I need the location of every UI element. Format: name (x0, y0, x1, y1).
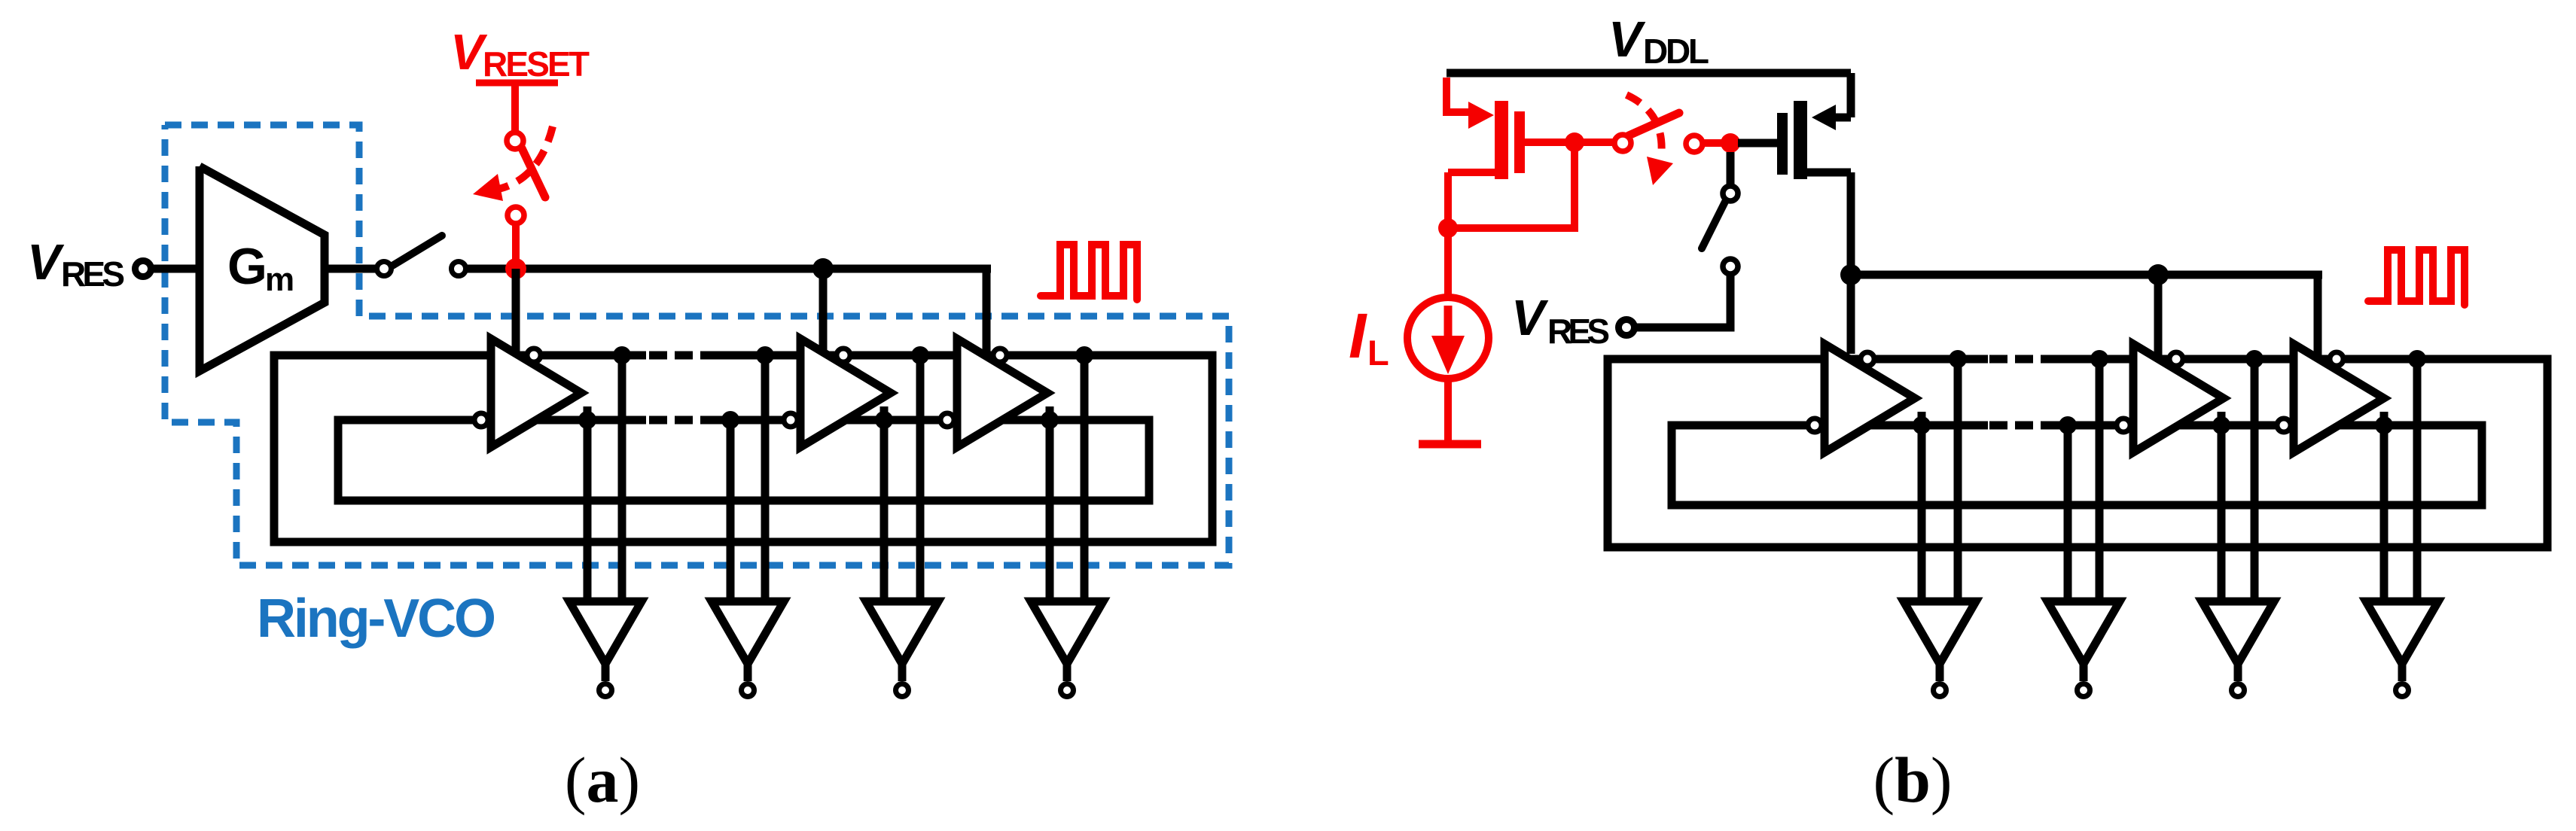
wire control to cell 2 (819, 269, 828, 356)
svg-text:I: I (1349, 300, 1367, 371)
switch S1 pole (377, 262, 392, 276)
svg-text:Ring-VCO: Ring-VCO (257, 589, 496, 649)
wire IL to ground (1444, 379, 1452, 442)
label VRES (27, 234, 125, 294)
wire cell output pair to buffer 2 (b) (2068, 359, 2099, 606)
wire cell output pair to buffer 3 (b) (2221, 359, 2254, 606)
junction lower rail tap 2 (a) (721, 411, 739, 429)
ground symbol (1419, 440, 1481, 449)
switch S3 left contact (1614, 135, 1631, 151)
label VDDL (1608, 11, 1709, 71)
junction upper rail tap 2 (a) (756, 346, 774, 364)
junction lower rail tap 4 (b) (2375, 416, 2393, 434)
transistor M1 PMOS source arrow (1468, 102, 1494, 129)
Ring-VCO dashed boundary box (165, 125, 1229, 565)
switch S2 bottom contact (508, 207, 524, 224)
wire inner feedback loop (a) (338, 420, 1149, 501)
junction lower rail tap 4 (a) (1041, 411, 1059, 429)
op-amp Gm transconductor (200, 166, 325, 371)
svg-text:(b): (b) (1873, 744, 1952, 816)
buffer 2 output stage (a) (712, 601, 784, 681)
wire cell output pair to buffer 3 (a) (884, 355, 920, 606)
junction lower rail tap 1 (a) (578, 411, 596, 429)
junction lower rail tap 3 (b) (2212, 416, 2230, 434)
wire Gm output (325, 265, 376, 273)
wire cell output pair to buffer 2 (a) (730, 355, 765, 606)
pin buffer 4 output terminal (a) (1061, 684, 1074, 697)
switch S2 blade (522, 148, 545, 197)
junction M1 drain node (1438, 218, 1458, 238)
wire control rail corner down to cell 3 (b) (2314, 271, 2322, 357)
wire lower rail dashed segment (b) (1989, 422, 2053, 430)
transistor M1 PMOS gate bar (1514, 111, 1525, 173)
buffer 1 output stage (a) (569, 601, 642, 681)
node VRES input terminal (136, 261, 151, 277)
pin inverting input bubble cell 3 (a) (940, 413, 954, 427)
transistor M2 PMOS channel bar (1794, 101, 1807, 179)
svg-text:V: V (1511, 290, 1549, 346)
switch S1 throw (452, 262, 466, 276)
svg-text:(a): (a) (565, 744, 640, 816)
junction lower rail tap 1 (b) (1913, 416, 1931, 434)
pin inverting input bubble cell 1 (a) (474, 413, 488, 427)
waveform clock output symbol (b) (2368, 250, 2465, 305)
pin buffer 2 output terminal (a) (742, 684, 755, 697)
svg-text:V: V (27, 234, 65, 291)
svg-text:L: L (1367, 333, 1389, 373)
inverter delay cell 3 (b) (2294, 344, 2384, 452)
pin inverting input bubble cell 1 (b) (1808, 419, 1821, 432)
switch S2 top contact (507, 132, 523, 149)
wire cell output pair to buffer 1 (a) (587, 355, 622, 606)
junction upper rail tap 2 (b) (2090, 350, 2108, 368)
wire switch S2 to node A (512, 224, 520, 269)
inverter delay cell 1 (b) (1825, 344, 1915, 452)
pin buffer 3 output terminal (a) (896, 684, 909, 697)
wire M2 source to VDDL (1833, 73, 1851, 117)
wire control to cell 1 (512, 269, 520, 354)
junction node B (red) (1721, 133, 1740, 153)
pin buffer 1 output terminal (a) (599, 684, 612, 697)
junction upper rail tap 4 (a) (1075, 346, 1093, 364)
junction control cell 2 (b) (2148, 264, 2169, 285)
junction lower rail tap 3 (a) (875, 411, 893, 429)
wire M1 gate to switch (1525, 138, 1614, 146)
label IL (1349, 300, 1389, 373)
transistor M1 PMOS channel bar (1495, 101, 1508, 179)
node VRES terminal (b) (1619, 320, 1635, 336)
junction upper rail tap 1 (b) (1949, 350, 1967, 368)
pin buffer 4 output terminal (b) (2396, 684, 2409, 697)
wire cell output pair to buffer 4 (a) (1050, 355, 1084, 606)
svg-text:V: V (1608, 11, 1646, 68)
buffer 1 output stage (b) (1904, 601, 1976, 681)
junction upper rail tap 1 (a) (613, 346, 631, 364)
pin buffer 2 output terminal (b) (2078, 684, 2090, 697)
wire cell output pair to buffer 1 (b) (1922, 359, 1958, 606)
pin inverting input bubble cell 2 (b) (2117, 419, 2130, 432)
switch S2 actuation arc (473, 126, 553, 201)
inverter delay cell 3 (a) (957, 339, 1047, 447)
power VRESET supply bar (476, 80, 558, 87)
svg-text:RESET: RESET (483, 44, 590, 84)
junction M1 gate node (1565, 132, 1584, 152)
pin inverted output bubble cell 3 (a) (993, 349, 1007, 362)
wire lower rail dashed segment (a) (649, 416, 715, 425)
wire inner feedback loop (b) (1672, 425, 2482, 505)
label VRES (b) (1511, 290, 1610, 351)
buffer 4 output stage (a) (1031, 601, 1103, 681)
transistor M2 PMOS gate bar (1777, 113, 1788, 175)
buffer 3 output stage (a) (866, 601, 938, 681)
buffer 3 output stage (b) (2202, 601, 2274, 681)
switch S3 actuation arc (1626, 95, 1673, 185)
wire VRESET bar to switch (511, 83, 519, 132)
label VRESET (450, 24, 590, 84)
wire control rail corner down to cell 3 (983, 265, 991, 356)
junction control cell 2 (812, 258, 834, 279)
current source IL arrow (1431, 306, 1465, 374)
pin buffer 1 output terminal (b) (1934, 684, 1946, 697)
junction upper rail tap 3 (a) (911, 346, 929, 364)
label Gm (227, 238, 294, 298)
wire cell output pair to buffer 4 (b) (2384, 359, 2417, 606)
switch S4 blade (1702, 202, 1725, 248)
pin inverted output bubble cell 3 (b) (2330, 352, 2343, 366)
svg-text:m: m (265, 261, 294, 298)
waveform clock output symbol (a) (1041, 245, 1137, 300)
wire control to cell 2 (b) (2154, 275, 2163, 357)
svg-text:G: G (227, 238, 267, 295)
junction lower rail tap 2 (b) (2059, 416, 2077, 434)
wire S3 to node B (1703, 139, 1730, 147)
buffer 4 output stage (b) (2366, 601, 2438, 681)
svg-text:DDL: DDL (1643, 32, 1709, 71)
pin inverting input bubble cell 2 (a) (784, 413, 797, 427)
pin inverted output bubble cell 2 (b) (2169, 352, 2183, 366)
junction upper rail tap 4 (b) (2408, 350, 2426, 368)
wire M1 diode connection (1448, 142, 1575, 228)
wire M1 drain (1448, 172, 1498, 228)
wire upper rail dashed segment (b) (1989, 355, 2053, 364)
switch S3 blade (1629, 113, 1679, 135)
wire control rail (b) (1851, 271, 2322, 279)
svg-text:RES: RES (1547, 312, 1610, 351)
wire VDDL to M1 source (1447, 78, 1470, 116)
transistor M2 PMOS source arrow (1812, 105, 1836, 130)
wire node B to M2 gate (1738, 139, 1777, 148)
wire VRES to Gm (154, 265, 200, 273)
inverter delay cell 2 (b) (2133, 344, 2224, 452)
wire M2 drain to ring control (1807, 172, 1851, 354)
wire outer feedback loop (a) (274, 355, 1212, 542)
pin inverted output bubble cell 1 (b) (1861, 352, 1874, 366)
pin inverting input bubble cell 3 (b) (2277, 419, 2291, 432)
wire S4 to VRES terminal (1636, 274, 1730, 327)
inverter delay cell 2 (a) (800, 339, 891, 447)
junction node A (red) (505, 258, 526, 279)
pin inverted output bubble cell 1 (a) (527, 349, 541, 362)
wire control rail (a) (466, 265, 991, 273)
wire outer feedback loop (b) (1608, 359, 2547, 547)
switch S3 right contact (1686, 135, 1703, 152)
power VDDL rail (1447, 69, 1851, 78)
pin buffer 3 output terminal (b) (2232, 684, 2245, 697)
junction upper rail tap 3 (b) (2245, 350, 2264, 368)
wire upper rail dashed segment (a) (649, 352, 715, 360)
current source IL (1444, 228, 1452, 297)
switch S4 bottom contact (1723, 259, 1738, 274)
switch S4 top contact (1723, 152, 1738, 201)
pin inverted output bubble cell 2 (a) (837, 349, 850, 362)
buffer 2 output stage (b) (2047, 601, 2120, 681)
inverter delay cell 1 (a) (491, 339, 581, 447)
switch S1 blade (392, 236, 442, 266)
junction control cell 1 (b) (1840, 264, 1861, 285)
svg-text:RES: RES (61, 254, 125, 294)
